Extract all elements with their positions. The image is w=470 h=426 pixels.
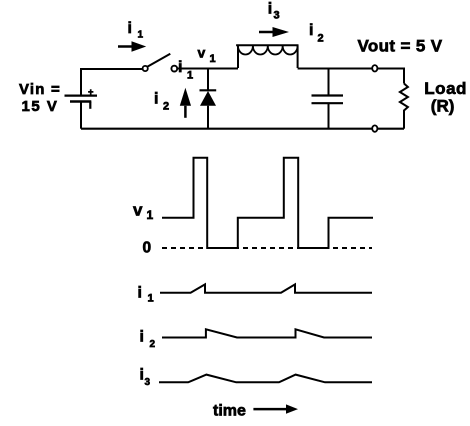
svg-text:1: 1 xyxy=(187,70,193,82)
svg-text:v: v xyxy=(198,45,206,61)
svg-text:1: 1 xyxy=(138,29,144,40)
svg-text:3: 3 xyxy=(145,377,151,388)
svg-text:Load: Load xyxy=(424,79,467,98)
svg-text:2: 2 xyxy=(150,339,156,350)
svg-text:0: 0 xyxy=(143,240,152,257)
svg-text:1: 1 xyxy=(210,53,216,65)
svg-text:v: v xyxy=(133,200,143,219)
svg-text:1: 1 xyxy=(147,208,154,222)
svg-text:time: time xyxy=(213,402,246,419)
svg-text:15 V: 15 V xyxy=(22,98,59,115)
svg-text:Vout = 5 V: Vout = 5 V xyxy=(358,37,443,56)
svg-text:3: 3 xyxy=(274,10,280,22)
svg-text:i: i xyxy=(140,329,144,346)
svg-text:i: i xyxy=(138,284,142,301)
svg-text:i: i xyxy=(140,367,144,384)
svg-text:(R): (R) xyxy=(431,97,455,116)
svg-text:2: 2 xyxy=(318,33,324,45)
svg-text:Vin =: Vin = xyxy=(19,81,61,98)
svg-text:1: 1 xyxy=(148,293,154,305)
svg-text:i: i xyxy=(128,20,132,37)
svg-text:i: i xyxy=(268,0,272,17)
svg-text:2: 2 xyxy=(163,100,169,112)
svg-text:i: i xyxy=(309,22,313,39)
svg-text:i: i xyxy=(154,91,158,108)
svg-text:i: i xyxy=(178,59,182,76)
